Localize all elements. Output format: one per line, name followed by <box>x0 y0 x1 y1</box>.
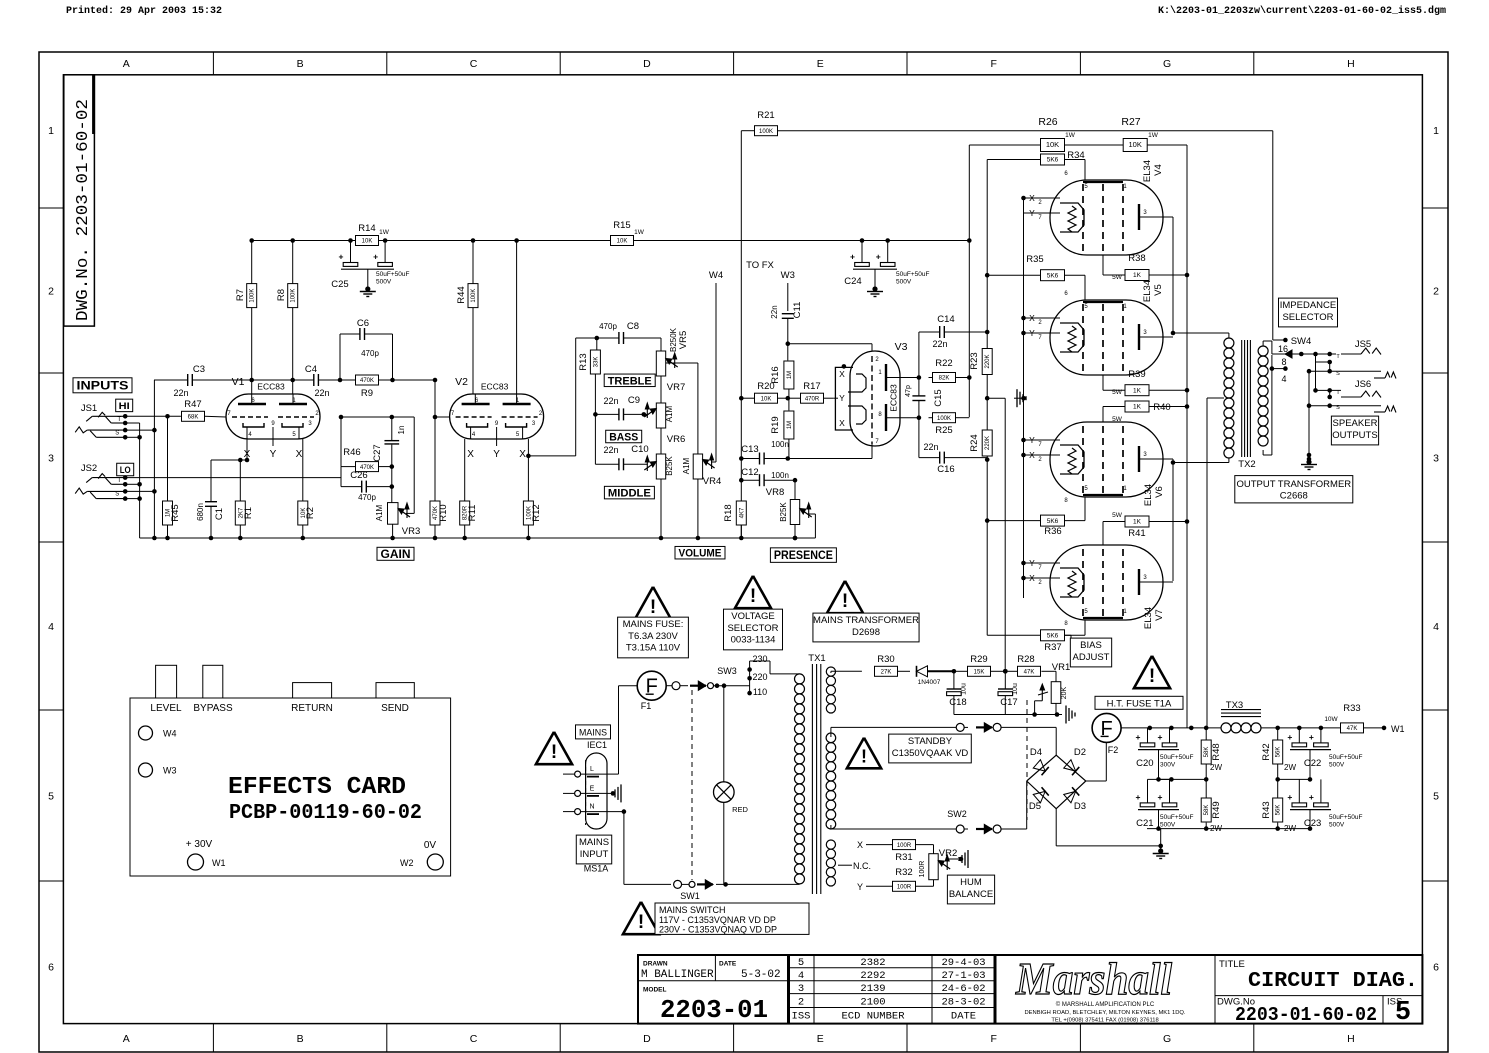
svg-text:R28: R28 <box>1017 654 1034 665</box>
HT fuse box <box>1095 696 1183 709</box>
wire JS1 contacts <box>125 422 139 424</box>
svg-text:680n: 680n <box>196 503 205 521</box>
svg-text:MAINS TRANSFORMER: MAINS TRANSFORMER <box>813 615 919 626</box>
wire V2 cathode follower to tone stack <box>526 454 531 459</box>
svg-text:X: X <box>296 449 303 460</box>
mains input label box <box>576 835 611 864</box>
svg-text:V6: V6 <box>1154 486 1165 498</box>
mechanical link dashed SW3-SW1 <box>691 690 693 880</box>
warning triangle mains fuse <box>635 587 671 619</box>
svg-text:110: 110 <box>753 687 767 697</box>
svg-text:Y: Y <box>839 393 845 403</box>
svg-text:C16: C16 <box>937 464 954 475</box>
svg-text:!: ! <box>842 591 848 612</box>
svg-text:ADJUST: ADJUST <box>1073 652 1110 663</box>
svg-text:B25K: B25K <box>779 502 788 522</box>
svg-text:K:\2203-01_2203zw\current\2203: K:\2203-01_2203zw\current\2203-01-60-02_… <box>1158 5 1446 17</box>
svg-text:ECC83: ECC83 <box>889 384 899 412</box>
svg-text:R22: R22 <box>935 358 952 369</box>
svg-text:82K: 82K <box>939 376 950 382</box>
effects card pad W4 <box>139 726 153 740</box>
capacitor C20 50uF+50uF 300V <box>1147 728 1149 743</box>
svg-text:47K: 47K <box>1347 726 1358 732</box>
svg-text:X: X <box>839 369 845 379</box>
capacitor C13 100n <box>739 456 744 461</box>
svg-text:MAINS: MAINS <box>579 727 607 738</box>
svg-text:LO: LO <box>120 465 131 476</box>
svg-text:+: + <box>339 252 344 262</box>
svg-text:HI: HI <box>119 401 130 412</box>
svg-text:R10: R10 <box>438 504 449 521</box>
wire R37 to VR1 <box>1065 634 1072 636</box>
svg-text:B: B <box>297 58 304 70</box>
svg-text:W2: W2 <box>400 858 414 868</box>
wire V7 cathode <box>1021 561 1026 566</box>
svg-text:2: 2 <box>798 997 804 1009</box>
svg-text:4: 4 <box>48 621 54 633</box>
svg-text:H: H <box>1347 58 1355 70</box>
svg-text:C2668: C2668 <box>1280 491 1308 502</box>
wire L pin to F1 <box>607 773 619 775</box>
svg-text:10K: 10K <box>1046 140 1059 149</box>
svg-text:5: 5 <box>48 791 54 803</box>
svg-text:DWG.No. 2203-01-60-02: DWG.No. 2203-01-60-02 <box>73 99 92 321</box>
svg-text:SW1: SW1 <box>680 891 700 901</box>
resistor R23 220K <box>982 349 992 375</box>
svg-text:B: B <box>297 1033 304 1045</box>
svg-text:500V: 500V <box>1329 822 1345 829</box>
svg-text:220: 220 <box>752 672 767 682</box>
svg-text:1M: 1M <box>787 371 793 379</box>
svg-text:10u: 10u <box>961 683 968 695</box>
tube V6 EL34 <box>1050 422 1163 497</box>
svg-text:R47: R47 <box>184 399 201 410</box>
svg-text:VR4: VR4 <box>703 476 721 487</box>
resistor R48 58K 2W <box>1205 728 1207 740</box>
svg-text:220K: 220K <box>985 436 991 450</box>
warning triangle mains switch <box>623 902 659 934</box>
svg-text:470p: 470p <box>358 493 376 502</box>
warning triangle voltage selector <box>735 576 771 608</box>
svg-text:5: 5 <box>1395 998 1411 1028</box>
svg-text:R39: R39 <box>1128 369 1145 380</box>
svg-text:4: 4 <box>1433 621 1439 633</box>
capacitor C25 50uF+50uF 500V <box>348 238 353 243</box>
resistor R29 15K <box>954 670 968 672</box>
svg-text:2292: 2292 <box>860 970 885 982</box>
effects card tab LEVEL <box>156 665 177 698</box>
capacitor C23 50uF+50uF 500V <box>1308 777 1313 782</box>
svg-text:C11: C11 <box>792 302 803 319</box>
bias adjust box <box>1070 638 1111 667</box>
svg-text:R9: R9 <box>361 388 373 399</box>
svg-text:T: T <box>117 478 121 484</box>
effects card tab RETURN <box>293 683 332 698</box>
svg-text:100K: 100K <box>250 289 256 303</box>
svg-text:47K: 47K <box>1024 670 1035 676</box>
svg-text:R40: R40 <box>1153 402 1170 413</box>
svg-text:!: ! <box>861 746 867 766</box>
standby box <box>889 734 972 763</box>
svg-text:29-4-03: 29-4-03 <box>941 957 985 969</box>
svg-text:X: X <box>857 840 863 850</box>
wire V6 cathode <box>1021 438 1026 443</box>
middle pot VR6 B25K <box>656 454 665 479</box>
wire V4 V5 plates to TX2 primary top <box>1163 216 1173 218</box>
svg-text:2: 2 <box>1433 286 1439 298</box>
svg-text:EL34: EL34 <box>1143 484 1154 506</box>
svg-text:50uF+50uF: 50uF+50uF <box>1329 814 1362 821</box>
svg-text:3: 3 <box>48 453 54 465</box>
svg-text:1W: 1W <box>1148 132 1159 139</box>
svg-text:2203-01-60-02: 2203-01-60-02 <box>1235 1004 1377 1026</box>
svg-text:R44: R44 <box>456 286 467 303</box>
svg-text:R25: R25 <box>935 425 952 436</box>
svg-text:230: 230 <box>752 654 767 664</box>
svg-text:TEL +(0908) 375411 FAX (01908): TEL +(0908) 375411 FAX (01908) 376118 <box>1051 1018 1158 1024</box>
svg-text:R36: R36 <box>1044 526 1061 537</box>
svg-text:22n: 22n <box>173 388 188 398</box>
row tick marks left <box>39 207 63 209</box>
wire V2 plate supply <box>595 336 600 341</box>
capacitor C9 22n <box>593 412 598 417</box>
mechanical link dashed SW2 <box>1026 700 1028 820</box>
svg-text:100K: 100K <box>937 416 951 422</box>
capacitor C16 22n <box>918 418 920 458</box>
svg-text:10K: 10K <box>761 396 772 402</box>
svg-text:X: X <box>467 449 474 460</box>
svg-text:C10: C10 <box>631 444 648 455</box>
svg-text:C: C <box>470 58 478 70</box>
svg-text:1W: 1W <box>634 229 645 236</box>
svg-text:+: + <box>1136 792 1141 802</box>
svg-text:0033-1134: 0033-1134 <box>731 635 776 646</box>
svg-text:VOLTAGE: VOLTAGE <box>731 611 774 622</box>
title block outline <box>638 955 1422 1024</box>
svg-text:3: 3 <box>1433 453 1439 465</box>
capacitor C22 50uF+50uF 500V <box>1298 728 1300 743</box>
svg-text:S: S <box>115 492 119 498</box>
svg-text:10K: 10K <box>617 239 628 245</box>
effects card outline <box>130 698 451 876</box>
svg-text:DATE: DATE <box>719 961 737 968</box>
capacitor C10 22n <box>595 463 618 465</box>
svg-text:8: 8 <box>1281 357 1286 367</box>
svg-text:OUTPUTS: OUTPUTS <box>1332 430 1377 441</box>
presence label box <box>770 548 836 563</box>
svg-text:M BALLINGER: M BALLINGER <box>641 969 714 981</box>
svg-text:22n: 22n <box>603 445 618 455</box>
svg-text:R29: R29 <box>970 654 987 665</box>
bridge rectifier D2 D3 D4 D5 <box>1027 755 1086 809</box>
svg-text:2W: 2W <box>1284 824 1296 833</box>
node bias a <box>952 669 957 674</box>
svg-text:TREBLE: TREBLE <box>608 375 652 387</box>
svg-text:IEC1: IEC1 <box>587 740 607 750</box>
bass label box <box>606 430 642 443</box>
svg-text:R37: R37 <box>1044 642 1061 653</box>
svg-text:VR3: VR3 <box>402 526 420 537</box>
resistor R1 2K7 <box>246 439 248 460</box>
svg-text:SELECTOR: SELECTOR <box>1282 312 1333 323</box>
resistor R42 56K 2W <box>1277 728 1279 740</box>
svg-text:+: + <box>1309 732 1314 742</box>
svg-text:2: 2 <box>48 286 54 298</box>
svg-text:ECC83: ECC83 <box>481 382 509 392</box>
B+ rail wire <box>252 240 970 242</box>
svg-text:+: + <box>850 252 855 262</box>
resistor R28 47K <box>1005 670 1017 672</box>
svg-text:JS6: JS6 <box>1355 379 1371 390</box>
svg-text:2W: 2W <box>1210 763 1222 772</box>
svg-text:1K: 1K <box>1133 519 1142 526</box>
svg-text:R15: R15 <box>613 220 630 231</box>
capacitor C6 470p parallel loop <box>338 378 343 383</box>
svg-text:ECC83: ECC83 <box>257 382 285 392</box>
svg-text:C3: C3 <box>193 364 205 375</box>
svg-text:RETURN: RETURN <box>291 703 333 714</box>
svg-text:MAINS: MAINS <box>579 837 609 848</box>
svg-text:D: D <box>643 58 651 70</box>
svg-text:6: 6 <box>1433 962 1439 974</box>
svg-text:C27: C27 <box>372 444 383 461</box>
svg-text:20K: 20K <box>1061 686 1068 699</box>
svg-text:22n: 22n <box>603 396 618 406</box>
pilot lamp RED <box>723 686 725 782</box>
svg-text:C1: C1 <box>214 508 225 520</box>
svg-text:D4: D4 <box>1030 747 1042 758</box>
fuse F2 <box>1092 713 1121 742</box>
svg-text:TITLE: TITLE <box>1219 959 1245 970</box>
wire NFB line <box>778 130 1273 132</box>
svg-text:D5: D5 <box>1029 801 1041 812</box>
TX1 heater secondary winding <box>826 840 835 849</box>
capacitor C18 10u <box>953 671 955 689</box>
svg-text:E: E <box>590 785 595 792</box>
treble label box <box>604 374 655 387</box>
svg-text:R32: R32 <box>895 867 912 878</box>
diode D1 1N4007 <box>898 670 911 672</box>
svg-text:R2: R2 <box>305 507 316 519</box>
mains switch box <box>655 903 809 934</box>
TX1 HT secondary winding <box>826 733 836 743</box>
title section CIRCUIT DIAG. <box>1215 995 1422 997</box>
svg-text:ISS: ISS <box>792 1011 811 1023</box>
svg-text:10K: 10K <box>1129 140 1142 149</box>
svg-text:58K: 58K <box>1204 747 1210 758</box>
svg-text:H: H <box>1347 1033 1355 1045</box>
svg-text:D2698: D2698 <box>852 627 880 638</box>
svg-text:50uF+50uF: 50uF+50uF <box>896 271 929 278</box>
resistor R32 100R <box>893 881 916 891</box>
svg-text:28-3-02: 28-3-02 <box>941 997 985 1009</box>
svg-text:C1350VQAAK VD: C1350VQAAK VD <box>892 748 969 759</box>
svg-text:JS1: JS1 <box>81 403 97 414</box>
effects card tab BYPASS <box>203 665 223 698</box>
svg-text:68K: 68K <box>188 415 199 421</box>
svg-text:+: + <box>1158 732 1163 742</box>
volume label box <box>675 546 725 559</box>
svg-text:MIDDLE: MIDDLE <box>608 488 651 500</box>
mains fuse rating box <box>618 617 689 658</box>
svg-text:R12: R12 <box>531 504 542 521</box>
svg-text:+: + <box>1136 732 1141 742</box>
svg-text:R27: R27 <box>1121 116 1140 128</box>
svg-text:PCBP-00119-60-02: PCBP-00119-60-02 <box>229 802 422 825</box>
svg-text:22n: 22n <box>932 339 947 349</box>
svg-text:2100: 2100 <box>860 997 885 1009</box>
svg-text:W4: W4 <box>709 270 723 281</box>
svg-text:DATE: DATE <box>951 1011 976 1023</box>
svg-text:VR6: VR6 <box>667 434 685 445</box>
svg-text:2W: 2W <box>1210 824 1222 833</box>
svg-text:S: S <box>115 430 119 436</box>
svg-text:C14: C14 <box>937 314 954 325</box>
svg-text:100K: 100K <box>471 289 477 303</box>
wire V4 cathode to bus <box>1021 196 1026 201</box>
svg-text:+ 30V: + 30V <box>186 839 213 850</box>
svg-text:500V: 500V <box>896 279 912 286</box>
wire F1 to SW3 <box>666 685 672 687</box>
svg-text:56K: 56K <box>1276 805 1282 816</box>
svg-text:F2: F2 <box>1108 745 1119 755</box>
warning triangle standby <box>847 738 881 769</box>
wire bias node <box>986 375 988 431</box>
svg-text:A: A <box>123 58 130 70</box>
row tick marks right <box>1422 207 1448 209</box>
wire PI B+ vertical <box>968 147 970 417</box>
svg-text:G: G <box>1163 58 1171 70</box>
svg-text:500V: 500V <box>1160 822 1176 829</box>
svg-text:1n: 1n <box>397 426 406 435</box>
svg-text:22n: 22n <box>314 388 329 398</box>
svg-text:+: + <box>876 252 881 262</box>
treble pot VR5 B250K <box>660 338 662 351</box>
svg-text:V2: V2 <box>455 376 468 388</box>
node V3 grid top <box>786 341 791 346</box>
TX1 core <box>811 664 813 894</box>
svg-text:C17: C17 <box>1000 697 1017 708</box>
TX2 core <box>1241 340 1243 457</box>
column tick marks top <box>212 52 214 75</box>
svg-text:10K: 10K <box>362 239 373 245</box>
svg-text:470p: 470p <box>361 349 379 358</box>
svg-text:5K6: 5K6 <box>1047 633 1059 640</box>
svg-text:STANDBY: STANDBY <box>908 736 953 747</box>
svg-text:V3: V3 <box>895 341 908 353</box>
wire screen feed <box>968 145 970 147</box>
bass pot VR7 A1M <box>656 403 665 428</box>
svg-text:100R: 100R <box>897 843 912 849</box>
svg-text:INPUT: INPUT <box>580 849 609 860</box>
svg-text:2139: 2139 <box>860 983 885 995</box>
svg-text:GAIN: GAIN <box>381 549 411 561</box>
ground at C21 <box>1156 826 1161 831</box>
gain pot VR3 A1M <box>388 503 399 525</box>
svg-text:L: L <box>590 766 594 773</box>
capacitor C12 100n <box>739 478 744 483</box>
svg-text:SPEAKER: SPEAKER <box>1333 418 1378 429</box>
gain label box <box>377 547 414 560</box>
svg-text:1M: 1M <box>787 421 793 429</box>
svg-text:A1M: A1M <box>375 504 384 521</box>
tube V3 ECC83 phase inverter <box>850 351 900 446</box>
TX2 secondary winding <box>1258 346 1268 356</box>
svg-text:W3: W3 <box>163 766 177 776</box>
svg-text:OUTPUT TRANSFORMER: OUTPUT TRANSFORMER <box>1236 479 1351 490</box>
resistor R30 27K <box>830 671 832 673</box>
svg-text:X: X <box>839 418 845 428</box>
wire grid bus A vertical <box>986 160 988 352</box>
svg-text:R49: R49 <box>1211 801 1222 818</box>
svg-text:C15: C15 <box>933 389 944 406</box>
svg-text:+: + <box>1309 792 1314 802</box>
svg-text:!: ! <box>638 912 644 933</box>
wire selector taps to TX1 primary <box>750 660 770 662</box>
svg-text:VOLUME: VOLUME <box>679 548 722 560</box>
svg-text:TX2: TX2 <box>1238 459 1255 470</box>
wire C20 C21 midpoint link <box>1159 778 1207 780</box>
cathode bus wire <box>1023 198 1025 598</box>
ground at speaker return <box>1307 453 1312 458</box>
svg-text:D3: D3 <box>1074 801 1086 812</box>
svg-text:1: 1 <box>1433 125 1439 137</box>
svg-text:!: ! <box>650 597 656 618</box>
svg-text:2203-01: 2203-01 <box>660 995 768 1025</box>
effects card tab SEND <box>376 683 414 698</box>
warning triangle HT fuse <box>1134 656 1170 688</box>
bias supply ground <box>954 714 1057 716</box>
svg-text:S: S <box>1336 405 1340 411</box>
svg-text:5K6: 5K6 <box>1047 272 1059 279</box>
svg-text:Printed: 29 Apr 2003 15:32: Printed: 29 Apr 2003 15:32 <box>66 5 222 17</box>
svg-text:BALANCE: BALANCE <box>949 889 993 900</box>
svg-text:MAINS FUSE:: MAINS FUSE: <box>623 619 684 630</box>
wire to V2 grid <box>393 379 436 381</box>
svg-text:6: 6 <box>48 962 54 974</box>
title block drawn/date/model section <box>714 955 716 981</box>
svg-text:A1M: A1M <box>682 457 691 474</box>
svg-text:C4: C4 <box>305 364 317 375</box>
svg-text:16: 16 <box>1278 344 1288 354</box>
svg-text:SEND: SEND <box>381 703 409 714</box>
svg-text:1: 1 <box>48 125 54 137</box>
drawing number box DWG.No. 2203-01-60-02 <box>64 75 95 326</box>
svg-text:4: 4 <box>798 970 804 982</box>
svg-text:33K: 33K <box>593 357 599 368</box>
svg-text:G: G <box>1163 1033 1171 1045</box>
svg-text:1N4007: 1N4007 <box>918 679 941 686</box>
svg-text:R43: R43 <box>1261 801 1272 818</box>
resistor R24 220K <box>982 430 992 456</box>
svg-text:VR7: VR7 <box>667 382 685 393</box>
svg-text:R20: R20 <box>757 381 774 392</box>
svg-text:47p: 47p <box>905 385 912 397</box>
svg-text:1W: 1W <box>379 229 390 236</box>
svg-text:50uF+50uF: 50uF+50uF <box>376 271 409 278</box>
svg-text:10W: 10W <box>1324 716 1338 723</box>
resistor R9 470K <box>356 375 379 385</box>
svg-text:R42: R42 <box>1261 743 1272 760</box>
svg-text:R8: R8 <box>276 289 287 301</box>
svg-text:F: F <box>990 1033 996 1045</box>
svg-text:VR5: VR5 <box>678 331 689 349</box>
svg-text:CIRCUIT DIAG.: CIRCUIT DIAG. <box>1248 970 1418 993</box>
svg-text:E: E <box>817 1033 824 1045</box>
svg-text:C22: C22 <box>1304 758 1321 769</box>
resistor R31 100R <box>893 840 916 850</box>
svg-text:230V - C1353VQNAQ VD DP: 230V - C1353VQNAQ VD DP <box>659 925 777 935</box>
